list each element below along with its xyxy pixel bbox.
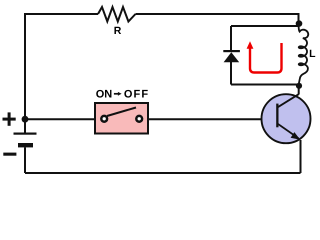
snubber branch top wire [231, 25, 299, 27]
wire collector to node [298, 85, 300, 95]
transistor Q1 emitter [278, 124, 299, 139]
inductor L1 [299, 26, 309, 84]
transistor Q1 emitter arrowhead [291, 132, 301, 140]
label - [3, 153, 16, 156]
node battery junction [22, 116, 29, 123]
node top junction [296, 20, 303, 27]
label ON -> OFF [96, 89, 149, 101]
svg-text:ON: ON [96, 89, 113, 101]
wire left and top [25, 14, 98, 133]
battery B1 [14, 133, 37, 174]
label + [3, 112, 16, 125]
wire emitter down [300, 140, 302, 173]
wire switch to transistor base [148, 118, 277, 120]
transistor Q1 collector [278, 94, 299, 107]
transistor Q1 base bar [276, 104, 278, 128]
wire battery to switch [25, 118, 95, 120]
red current loop arrow [250, 43, 282, 73]
svg-text:R: R [114, 25, 122, 37]
snubber branch bottom wire [231, 84, 299, 86]
switch S1 [95, 103, 148, 134]
node bottom junction [296, 83, 302, 89]
diode D1 [223, 50, 240, 62]
transistor Q1 body [262, 94, 311, 143]
svg-text:L: L [309, 48, 316, 60]
resistor R [98, 7, 136, 22]
wire top right [136, 14, 299, 24]
red arrowhead [247, 41, 254, 49]
svg-text:OFF: OFF [124, 89, 149, 101]
diode D1 vertical leads [230, 26, 232, 85]
wire bottom [25, 172, 301, 174]
